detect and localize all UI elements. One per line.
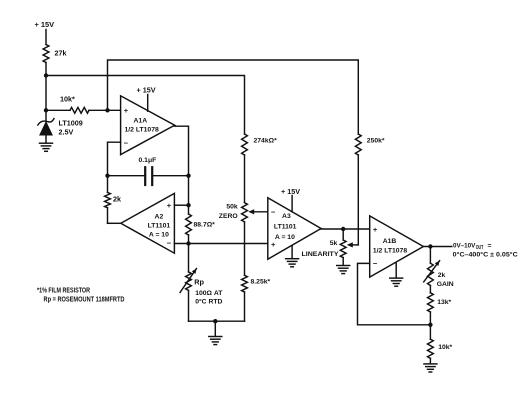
svg-text:−: − (167, 238, 172, 247)
svg-text:88.7Ω*: 88.7Ω* (194, 222, 216, 229)
svg-text:+ 15V: + 15V (35, 20, 55, 29)
wire Rp/8.25k bottom (189, 320, 245, 322)
capacitor 0.1uF (108, 157, 189, 185)
svg-text:0°C–400°C ± 0.05°C: 0°C–400°C ± 0.05°C (453, 251, 518, 259)
note film resistor (37, 288, 90, 295)
svg-text:2.5V: 2.5V (59, 128, 74, 137)
svg-text:50k: 50k (226, 203, 238, 210)
node A1B output (428, 244, 432, 248)
+15V supply (A1A) (137, 86, 156, 112)
svg-text:−: − (373, 259, 378, 268)
wire A1B output (423, 246, 451, 248)
resistor 13k* (428, 286, 452, 325)
wire A2 - to A3 + (174, 243, 267, 245)
svg-text:*1% FILM RESISTOR: *1% FILM RESISTOR (37, 288, 90, 295)
note rosemount (44, 297, 125, 304)
wire 27k to LT1009 node (45, 63, 47, 121)
node 13k/10k junction (428, 323, 432, 327)
potentiometer 5k LINEARITY (302, 229, 347, 265)
resistor 27k (43, 45, 66, 63)
wire 8.25k bottom (244, 292, 246, 321)
+15V supply label (top left) (35, 20, 55, 45)
wire 50k to 8.25k (244, 222, 246, 275)
svg-text:A1B: A1B (383, 238, 397, 245)
resistor 8.25k* (242, 275, 271, 292)
svg-text:A1A: A1A (134, 117, 148, 124)
wire A2 output (108, 222, 121, 224)
svg-text:LT1009: LT1009 (59, 119, 83, 128)
diode LT1009 2.5V (38, 119, 83, 144)
svg-text:A3: A3 (282, 213, 291, 220)
svg-text:=: = (488, 242, 492, 249)
+15V supply (A3) (281, 187, 300, 212)
node A1A feedback (105, 174, 109, 178)
node 88.7 top (186, 203, 190, 207)
op-amp A1A 1/2 LT1078 (121, 96, 175, 155)
node 88.7 bottom / Rp top (186, 241, 190, 245)
svg-text:GAIN: GAIN (437, 281, 454, 288)
svg-text:0°C RTD: 0°C RTD (195, 298, 222, 306)
node bottom ground tap (213, 319, 217, 323)
output label (453, 242, 518, 258)
svg-text:10k*: 10k* (60, 95, 75, 104)
svg-text:0V–10V: 0V–10V (453, 242, 476, 249)
svg-text:A = 10: A = 10 (275, 234, 295, 241)
resistor 2k (105, 176, 121, 224)
svg-text:10k*: 10k* (438, 344, 452, 351)
svg-text:OUT: OUT (476, 245, 484, 251)
wire 274k to 50k (244, 155, 246, 203)
svg-text:1/2 LT1078: 1/2 LT1078 (125, 126, 159, 133)
svg-text:0.1μF: 0.1μF (139, 157, 157, 164)
svg-text:+: + (373, 225, 378, 234)
svg-text:2k: 2k (113, 195, 121, 204)
wire A2 + input (174, 204, 188, 206)
svg-text:A = 10: A = 10 (149, 232, 169, 239)
svg-text:A2: A2 (155, 214, 164, 221)
svg-text:+ 15V: + 15V (137, 86, 156, 95)
svg-text:274kΩ*: 274kΩ* (254, 138, 278, 145)
wiper arrow 5k (from 250k) (347, 242, 359, 247)
op-amp A2 LT1101 (121, 193, 175, 253)
svg-text:250k*: 250k* (367, 138, 385, 145)
ground (A3) (286, 246, 299, 267)
resistor 274kohm* (242, 134, 277, 155)
resistor 88.7ohm* (186, 205, 216, 243)
svg-text:+ 15V: + 15V (281, 187, 300, 196)
svg-text:Rp = ROSEMOUNT 118MFRTD: Rp = ROSEMOUNT 118MFRTD (44, 297, 125, 304)
svg-text:+: + (124, 106, 129, 115)
svg-text:LT1101: LT1101 (274, 224, 297, 231)
wire B (node to 274k column) (46, 76, 245, 135)
node 10k tap (44, 108, 48, 112)
ground (LT1009) (40, 143, 53, 151)
op-amp A3 LT1101 (268, 198, 321, 259)
svg-text:−: − (271, 207, 276, 216)
wiper arrow 50k (to A3 -) (248, 209, 268, 214)
svg-text:LINEARITY: LINEARITY (302, 251, 339, 258)
wire A1B - feedback (358, 263, 431, 324)
node A3 output / 5k tap (341, 227, 345, 231)
svg-text:13k*: 13k* (437, 299, 451, 306)
svg-text:2k: 2k (438, 272, 446, 279)
svg-text:5k: 5k (330, 240, 338, 247)
wire A3 output (321, 228, 370, 230)
svg-text:−: − (124, 138, 129, 147)
svg-text:LT1101: LT1101 (148, 223, 171, 230)
resistor Rp RTD (variable) (180, 244, 223, 322)
ground (10k) (424, 364, 437, 372)
svg-text:+: + (167, 201, 172, 210)
svg-text:Rp: Rp (194, 278, 204, 287)
svg-text:100Ω AT: 100Ω AT (195, 290, 223, 297)
op-amp A1B 1/2 LT1078 (370, 216, 424, 277)
ground (A1B) (390, 263, 403, 286)
resistor 10k* (output divider) (428, 325, 453, 364)
svg-text:1/2 LT1078: 1/2 LT1078 (373, 247, 407, 254)
wire A1A output (175, 126, 189, 205)
svg-text:27k: 27k (55, 49, 67, 58)
resistor 10k* (46, 95, 121, 114)
node A1A + input (105, 108, 109, 112)
resistor 250k* (355, 134, 385, 155)
potentiometer 50k ZERO (219, 203, 248, 222)
ground (5k pot) (337, 266, 350, 274)
svg-text:ZERO: ZERO (219, 213, 238, 220)
ground (Rp/8.25k) (209, 321, 222, 344)
svg-text:8.25k*: 8.25k* (251, 278, 271, 285)
wire 250k to 5k wiper (357, 155, 359, 245)
wire A1A - input (108, 142, 121, 176)
trimmer 2k GAIN (424, 247, 454, 289)
node cap/output column (186, 174, 190, 178)
node wireB tap (44, 73, 48, 77)
wire A (A1A + to 250k column) (108, 60, 359, 134)
